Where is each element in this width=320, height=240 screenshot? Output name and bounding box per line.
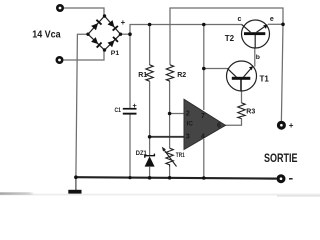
op-amp IC (184, 99, 226, 149)
node: DZ1 on ground rail (148, 176, 152, 180)
node: pin7 on +V rail (202, 23, 206, 27)
diode bottom-left (points to bottom corner) (91, 37, 102, 48)
svg-text:T2: T2 (225, 34, 235, 43)
svg-text:7: 7 (201, 113, 205, 120)
transistor T2 (242, 20, 270, 48)
svg-text:2: 2 (186, 111, 190, 118)
output terminal minus (277, 174, 286, 183)
ground stub (75, 177, 77, 190)
wire top rail from R2 to output plus line (170, 8, 283, 65)
svg-text:4: 4 (201, 133, 205, 140)
bridge rectifier P1 (86, 14, 122, 51)
wire R1 bottom lead to node pin3 (149, 81, 151, 137)
wire DZ1 cathode lead (149, 137, 151, 156)
wire C1 bottom lead to ground rail (129, 114, 131, 177)
node: R1 top on +V rail (148, 23, 152, 27)
wire op-amp pin 3 input (thick) (150, 136, 185, 138)
svg-text:14 Vca: 14 Vca (32, 29, 61, 40)
wire op-amp pin 4 to ground rail (203, 139, 205, 178)
svg-text:6: 6 (217, 123, 221, 130)
wire C1 top lead (129, 34, 131, 108)
capacitor C1 (123, 108, 137, 115)
wire R3 top to T1 base (241, 91, 243, 103)
bridge corner node left (86, 33, 89, 36)
diode top-left (points to top corner) (91, 19, 102, 30)
wire from input terminal 2 to bridge bottom (64, 51, 105, 60)
node: pin 4 on ground rail (202, 176, 206, 180)
svg-text:TR1: TR1 (176, 152, 185, 159)
output terminal plus (277, 121, 286, 130)
node: T1 collector tap (202, 67, 206, 71)
svg-text:IC: IC (187, 121, 194, 128)
wire from bridge right corner to +V node (121, 33, 131, 35)
wire T2 emitter to output plus line (268, 23, 283, 25)
node: pin 2 / R2 / TR1 (168, 112, 172, 116)
trimmer TR1 (162, 147, 177, 167)
node: C1 on ground rail (128, 176, 131, 179)
svg-text:P1: P1 (111, 50, 120, 57)
svg-text:+: + (132, 101, 137, 110)
transistor T1 (227, 61, 257, 91)
svg-text:SORTIE: SORTIE (264, 153, 298, 165)
resistor R2 (166, 65, 173, 81)
svg-text:+: + (121, 18, 126, 27)
zener diode DZ1 (145, 154, 155, 167)
wire TR1 bottom lead to ground rail (169, 167, 171, 178)
svg-text:R3: R3 (246, 109, 255, 116)
wire R1 top lead (149, 25, 151, 66)
wire op-amp pin 2 input (170, 113, 185, 115)
bridge corner node bottom (103, 48, 106, 51)
svg-text:T1: T1 (260, 75, 270, 84)
wire +V rail y=24.5 (130, 25, 242, 35)
svg-text:e: e (270, 16, 274, 23)
wire T1 collector to pin7 line (204, 68, 227, 70)
svg-text:R2: R2 (177, 72, 186, 79)
wire op-amp output pin 6 to R3 bottom (225, 119, 242, 126)
svg-text:R1: R1 (138, 72, 147, 79)
node: pin 3 / R1 / DZ1 (148, 135, 152, 139)
node: ground rail left end (74, 175, 78, 179)
wire from bridge left corner to ground rail (crosses input wire, no dot) (76, 34, 89, 177)
wire from input terminal 1 to bridge top (63, 8, 104, 17)
wire R2 bottom lead to pin2 node and TR1 top (169, 81, 171, 148)
ground rail (bottom, thick) (76, 177, 277, 178)
bridge corner node right (119, 33, 122, 36)
diode bottom-right (points to right corner) (107, 36, 118, 47)
ground symbol (68, 190, 81, 194)
svg-text:DZ1: DZ1 (136, 150, 147, 157)
wire T2 base internal (254, 35, 256, 48)
bridge corner node top (103, 14, 106, 17)
input terminal top (56, 4, 64, 12)
wire DZ1 anode lead to ground rail (149, 167, 151, 178)
resistor R1 (146, 65, 153, 81)
node: TR1 on ground rail (168, 176, 172, 180)
resistor R3 (238, 103, 245, 119)
wire T1 base into circle (240, 80, 242, 92)
wire T2 base node b to T1 emitter (254, 48, 256, 67)
diamond outline (88, 16, 121, 50)
wire op-amp pin 7 to +V rail (203, 25, 205, 111)
svg-text:c: c (238, 16, 242, 23)
wire output plus vertical to + terminal (281, 24, 283, 121)
svg-text:+: + (289, 121, 294, 130)
svg-text:b: b (256, 54, 260, 61)
node: emitter T2 / plus line (281, 23, 285, 27)
diode top-right (points to right corner) (107, 20, 118, 31)
svg-text:C1: C1 (115, 107, 122, 114)
label minus (output) (289, 178, 293, 179)
node: bridge plus junction (128, 32, 132, 36)
svg-text:3: 3 (186, 133, 190, 140)
input terminal bottom (56, 56, 64, 64)
